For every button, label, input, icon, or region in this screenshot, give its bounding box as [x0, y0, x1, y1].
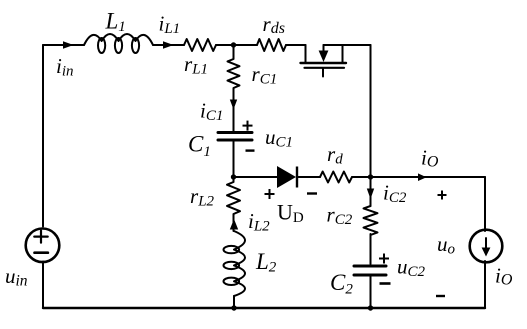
resistor r_d — [320, 172, 352, 183]
arrow inside current source — [485, 237, 487, 249]
wire left vertical upper (u_in top) — [42, 45, 44, 227]
wire r_C2 to C2 — [370, 234, 372, 264]
minus sign C2 — [380, 282, 391, 285]
wire MOSFET arrow to top-right corner — [324, 44, 371, 46]
wire bottom rail — [43, 307, 485, 309]
wire node B to diode — [234, 176, 278, 178]
node B dot — [231, 174, 236, 179]
diode U_D — [277, 166, 298, 188]
wire r_L2 to L2 — [233, 215, 235, 232]
resistor R r_L1 — [184, 39, 216, 51]
voltage source u_in circle — [26, 229, 60, 263]
inductor L1 — [84, 34, 153, 53]
minus sign C1 — [246, 149, 255, 151]
minus sign output — [436, 295, 445, 297]
wire output right vertical lower — [484, 261, 486, 308]
resistor r_ds — [257, 39, 286, 51]
transistor Q MOSFET switch — [301, 45, 347, 77]
minus sign diode — [307, 192, 317, 194]
inductor L2 — [224, 231, 246, 296]
plus sign diode — [265, 189, 275, 199]
arrow i_L2 up — [230, 219, 238, 230]
plus sign inside u_in — [34, 231, 47, 243]
wire output right vertical upper — [484, 177, 486, 231]
node dot bottom left — [231, 305, 236, 310]
wire r_L1 to r_ds through node — [216, 44, 257, 46]
arrow i_C1 down — [230, 100, 237, 110]
wire node C to output corner — [371, 176, 486, 178]
capacitor C1 — [218, 133, 252, 141]
wire node C down to r_C2 — [370, 177, 372, 206]
plus sign C1 — [243, 121, 253, 131]
current source i_O circle — [470, 230, 503, 263]
wire L2 to bottom rail — [233, 296, 235, 308]
node C dot — [368, 174, 373, 179]
wire right vertical from corner down to node C — [370, 45, 372, 177]
arrow i_in — [63, 41, 74, 49]
node dot bottom right — [368, 305, 373, 310]
resistor r_L2 vertical — [227, 177, 240, 214]
wire diode to r_d — [299, 176, 321, 178]
resistor r_C1 vertical — [228, 45, 240, 100]
wire C1 to node B — [233, 142, 235, 178]
MOSFET arrow head — [319, 51, 329, 63]
wire r_d to node C — [352, 176, 371, 178]
wire C2 to bottom rail — [370, 277, 372, 309]
plus sign output — [438, 191, 447, 200]
wire top-left horizontal segment — [43, 44, 84, 46]
arrow i_C2 down — [367, 189, 374, 200]
wire r_C1 to C1 — [233, 100, 235, 131]
minus sign inside u_in — [35, 251, 48, 254]
wire left vertical lower (u_in bottom) — [42, 262, 44, 309]
arrow i_O right — [418, 173, 427, 181]
capacitor C2 — [354, 266, 386, 275]
wire r_ds to MOSFET left leg — [286, 44, 306, 46]
resistor r_C2 vertical — [364, 206, 378, 235]
plus sign C2 — [379, 254, 389, 264]
wire between L1 and r_L1 — [153, 44, 184, 46]
node dot top — [231, 42, 236, 47]
arrow i_L1 — [163, 41, 174, 49]
